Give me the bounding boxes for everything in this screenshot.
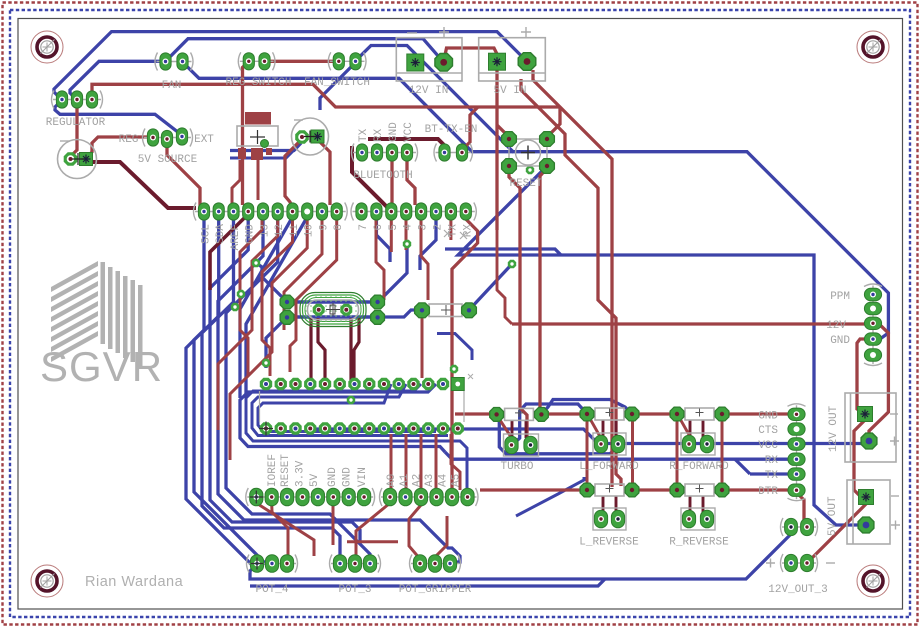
wire (252, 384, 448, 436)
pad BLUETOOTH RX (371, 144, 382, 161)
svg-text:TURBO: TURBO (500, 461, 533, 473)
pad FTDI GND (788, 408, 805, 420)
cross mark (250, 130, 265, 144)
wire (735, 459, 750, 474)
wire (409, 505, 421, 559)
pad U1 top5 (319, 378, 331, 390)
SMD pad (251, 148, 263, 160)
SMD pad (238, 148, 246, 159)
pad REG 2 (161, 130, 172, 147)
header TURBO outline (504, 434, 539, 456)
cross mark (72, 153, 84, 165)
pad REG 1 (147, 129, 158, 146)
pad POT_4 3 (280, 555, 293, 573)
wire (71, 100, 77, 159)
pad BT-TX-EN 2 (456, 144, 467, 161)
svg-text:SCL: SCL (201, 224, 213, 244)
wire (497, 230, 512, 324)
x mark (444, 230, 451, 237)
pad L_REVERSE a (594, 510, 607, 528)
pad L_FORWARD a (594, 435, 607, 453)
wire (513, 404, 588, 445)
wire (376, 219, 390, 262)
pad U1 top2 (275, 378, 287, 390)
wire (869, 323, 888, 441)
svg-text:POT_3: POT_3 (338, 584, 371, 596)
svg-text:R_REVERSE: R_REVERSE (669, 537, 729, 549)
wire (750, 472, 795, 475)
header 12V_OUT_3 (781, 554, 818, 572)
pad U1 top8 (363, 378, 375, 390)
svg-text:A3: A3 (424, 474, 436, 487)
header digital row2 (351, 203, 476, 221)
pad R_REVERSE 2 (715, 483, 729, 497)
wire (854, 420, 866, 497)
pad 5V IN - (489, 53, 506, 70)
wire (810, 497, 866, 560)
pad R_REVERSE 1 (670, 483, 684, 497)
minus mark (826, 562, 835, 564)
svg-text:BT-TX-EN: BT-TX-EN (425, 124, 478, 136)
pad U1 bot11 (407, 422, 419, 434)
pad Q1 g2 (280, 311, 294, 325)
wire (349, 318, 352, 380)
wire (589, 417, 602, 440)
wire (309, 318, 312, 380)
plus mark (521, 27, 531, 37)
pad L_REVERSE 2 (625, 483, 639, 497)
svg-text:5V OUT: 5V OUT (827, 496, 839, 536)
cross mark (458, 484, 471, 497)
pad hole (455, 382, 460, 387)
wire (636, 488, 675, 491)
wire (86, 137, 153, 158)
pad SMD (261, 140, 269, 148)
pad D-7 (356, 203, 367, 220)
wire (462, 107, 478, 150)
wire (421, 318, 424, 378)
pad PWR6 (327, 488, 340, 506)
wire (210, 219, 360, 544)
x mark (460, 232, 467, 239)
svg-text:DTR: DTR (758, 486, 778, 498)
crystal Q1 body (300, 293, 366, 327)
pad Q1 g3 (371, 295, 385, 309)
header REGULATOR (52, 91, 103, 109)
pad L_FORWARD 2 (625, 407, 639, 421)
svg-text:GND: GND (245, 224, 257, 244)
svg-text:REGULATOR: REGULATOR (46, 117, 106, 129)
wire (167, 139, 200, 211)
svg-text:12V OUT: 12V OUT (828, 405, 840, 452)
svg-text:R_FORWARD: R_FORWARD (669, 461, 729, 473)
pad TURBO b (524, 436, 537, 454)
svg-text:L_FORWARD: L_FORWARD (579, 461, 639, 473)
via (347, 396, 355, 404)
wire (407, 152, 415, 205)
svg-text:6: 6 (373, 224, 385, 231)
pad U1 top7 (348, 378, 360, 390)
svg-text:Rian Wardana: Rian Wardana (85, 574, 184, 590)
wire (166, 39, 444, 63)
pad U1 bot12 (422, 422, 434, 434)
pad Q1 a (313, 304, 325, 316)
wire (796, 492, 806, 527)
svg-text:9: 9 (319, 224, 331, 231)
pad R_FORWARD a (682, 435, 695, 453)
pad FTDI TX (788, 468, 805, 480)
svg-text:A5: A5 (451, 474, 463, 487)
pad BLUETOOTH GND (386, 144, 397, 161)
capacitor C1 outline (58, 140, 97, 179)
pad POT_4 1 (250, 555, 263, 573)
via (252, 259, 260, 267)
wire (421, 219, 428, 300)
header R_FORWARD outline (681, 433, 715, 455)
header POT_4 (247, 555, 298, 573)
pad D-12 (272, 203, 283, 220)
pad U1 bot10 (393, 422, 405, 434)
header POT_3 (330, 555, 381, 573)
pad 5V IN + (518, 53, 536, 71)
pad C1 - (64, 152, 78, 166)
header analog (380, 488, 479, 506)
mounting hole H4 (857, 565, 889, 597)
pad PWR4 (296, 488, 309, 506)
wire (320, 66, 352, 110)
pad U1 bot3 (289, 422, 301, 434)
pad PPM (864, 349, 881, 361)
wire (499, 416, 617, 454)
wire (262, 219, 293, 376)
svg-text:4: 4 (403, 224, 415, 231)
pad U1 top1 (260, 378, 272, 390)
wire (420, 434, 423, 490)
wire (545, 412, 582, 415)
wire (246, 384, 467, 488)
wire (310, 429, 862, 444)
wire (250, 579, 605, 586)
wire (86, 162, 196, 208)
svg-text:3.3V: 3.3V (295, 460, 307, 487)
x mark (468, 374, 473, 379)
wire (368, 139, 448, 149)
pad D-3 (416, 203, 427, 220)
header L_REVERSE outline (593, 508, 626, 530)
pad 5V OUT + (858, 517, 874, 533)
header FTDI (788, 404, 806, 501)
header R_REVERSE outline (681, 508, 715, 530)
resistor R1 outline (429, 304, 462, 317)
wire (615, 420, 618, 438)
pad 12V_OUT_3 + (785, 554, 798, 571)
pad A3 (430, 488, 443, 506)
pad POT_GRIPPER 1 (413, 555, 426, 573)
wire (469, 264, 512, 310)
wire (230, 219, 307, 460)
wire (250, 527, 791, 579)
pad POT_3 3 (363, 555, 376, 573)
via (262, 359, 270, 367)
wire (458, 168, 862, 525)
wire (444, 48, 498, 62)
component RESET outline (509, 139, 547, 166)
svg-text:A1: A1 (399, 473, 411, 487)
svg-text:FAN_SWITCH: FAN_SWITCH (304, 77, 370, 89)
wire (689, 496, 692, 513)
pad U1 bot2 (275, 422, 287, 434)
svg-text:RX: RX (373, 128, 385, 142)
wire (420, 219, 436, 270)
pad L_FORWARD 1 (580, 407, 594, 421)
wire (186, 219, 257, 564)
svg-text:REG: REG (119, 134, 139, 146)
svg-text:FAN: FAN (162, 80, 182, 92)
connector 12V OUT outline (845, 393, 896, 462)
wire (727, 412, 789, 415)
pad TURBO 1 (490, 408, 504, 422)
wire (240, 384, 445, 452)
capacitor C2 outline (292, 118, 329, 155)
pad D-10 (302, 203, 313, 220)
wire (272, 503, 288, 560)
wire (317, 139, 330, 205)
pad POT_GRIPPER 2 (428, 555, 441, 573)
header REG_SWITCH (238, 52, 275, 70)
resistor R_FORWARD outline (685, 408, 714, 420)
svg-text:5V: 5V (309, 473, 321, 487)
wire (378, 244, 407, 302)
pad 12V IN + (435, 54, 453, 72)
svg-text:EXT: EXT (194, 134, 214, 146)
wire (547, 107, 560, 137)
pad Q1 g1 (280, 295, 294, 309)
header FAN_SWITCH (328, 52, 366, 70)
wire (405, 434, 408, 490)
minus mark (407, 32, 417, 34)
pad D-AREF (228, 203, 239, 220)
via (508, 260, 516, 268)
pad RESET 3 (502, 159, 517, 174)
pad RESET 4 (540, 159, 555, 174)
pad DIO 2 (801, 518, 814, 535)
wire (354, 318, 359, 380)
svg-text:IOREF: IOREF (267, 454, 279, 487)
pad Q1 g4 (371, 311, 385, 325)
pad PWR3 (281, 488, 294, 506)
pad RESET 1 (502, 132, 517, 147)
wire (541, 400, 632, 415)
header digital row1 (194, 203, 348, 221)
pad BLUETOOTH TX (356, 144, 367, 161)
wire (390, 219, 393, 252)
pad D-GND (243, 203, 254, 220)
pad TURBO a (505, 436, 518, 454)
pad U1 top13 (437, 378, 449, 390)
wire (727, 488, 789, 491)
header BT-TX-EN (434, 144, 473, 162)
wire (509, 168, 527, 440)
wire (287, 300, 378, 303)
wire (551, 152, 888, 339)
wire (70, 61, 166, 100)
cross mark (441, 305, 451, 315)
wire (615, 496, 618, 513)
wire (512, 322, 867, 325)
pad 5V OUT - (859, 490, 874, 505)
svg-text:CTS: CTS (758, 425, 778, 437)
pad PWR1 (250, 488, 263, 506)
pad DIO 1 (785, 518, 798, 535)
svg-text:GND: GND (388, 122, 400, 142)
pad PWR5 (311, 488, 324, 506)
wire (355, 46, 551, 152)
wire (210, 214, 248, 290)
svg-text:GND: GND (342, 467, 354, 487)
plus mark (766, 559, 775, 568)
pad POT_3 2 (348, 555, 361, 573)
wire (347, 540, 398, 543)
svg-text:A4: A4 (438, 473, 450, 487)
mounting hole H2 (857, 31, 889, 63)
svg-text:VIN: VIN (357, 467, 369, 487)
via (403, 240, 411, 248)
wire (497, 125, 509, 137)
svg-text:BLUETOOTH: BLUETOOTH (353, 170, 412, 182)
pad R_FORWARD 1 (670, 407, 684, 421)
wire (256, 263, 287, 302)
wire (240, 219, 262, 376)
header power (246, 488, 375, 506)
pad R_REVERSE a (682, 510, 695, 528)
pad POT_4 2 (265, 555, 278, 573)
wire (55, 100, 182, 135)
svg-text:GND: GND (830, 335, 850, 347)
wire (390, 152, 393, 205)
svg-text:RX: RX (765, 455, 779, 467)
wire (284, 219, 322, 330)
pad REGULATOR 2 (71, 91, 82, 108)
wire (240, 217, 293, 398)
pad POT_3 1 (333, 555, 346, 573)
wire (265, 60, 339, 63)
wire (451, 434, 460, 490)
pad BT-TX-EN 1 (439, 144, 450, 161)
pad D-SDA (213, 203, 224, 220)
pad Q1 b (340, 304, 352, 316)
svg-text:12V: 12V (826, 320, 846, 332)
wire (449, 219, 452, 240)
svg-text:TX: TX (765, 470, 779, 482)
wire (452, 219, 478, 488)
wire (702, 496, 705, 513)
pad U1 top9 (378, 378, 390, 390)
IC U1 outline (260, 391, 465, 422)
minus mark (890, 413, 898, 415)
pad U1 bot1 (260, 422, 272, 434)
mounting hole H3 (31, 565, 63, 597)
wire (230, 143, 301, 151)
header L_FORWARD outline (593, 433, 626, 455)
wire (256, 503, 314, 556)
wire (689, 420, 692, 438)
minus mark (60, 140, 70, 142)
pad R1 2 (462, 303, 477, 318)
pad D-13 (257, 203, 268, 220)
svg-text:5: 5 (388, 224, 400, 231)
pad PPM (864, 302, 881, 314)
resistor R_REVERSE outline (685, 484, 714, 496)
wire (243, 61, 249, 205)
connector 5V OUT outline (847, 480, 890, 544)
svg-text:RESET: RESET (509, 178, 542, 190)
pad U1 top10 (393, 378, 405, 390)
pad 12V IN - (407, 54, 424, 71)
wire (218, 219, 460, 562)
pad U1 bot5 (319, 422, 331, 434)
wire (586, 418, 589, 486)
svg-text:8: 8 (333, 224, 345, 231)
svg-text:11: 11 (289, 224, 301, 238)
pad U1 bot4 (304, 422, 316, 434)
wire (405, 219, 408, 250)
pad FAN_SWITCH 2 (350, 53, 361, 70)
svg-text:3: 3 (418, 224, 430, 231)
svg-text:REG_SWITCH: REG_SWITCH (225, 77, 291, 89)
plus mark (890, 437, 899, 446)
wire (376, 219, 384, 300)
minus mark (294, 119, 303, 121)
svg-text:12V_OUT_3: 12V_OUT_3 (768, 584, 827, 596)
mounting hole H1 (31, 31, 63, 63)
resistor TURBO outline (505, 408, 534, 420)
via (450, 365, 458, 373)
pad U1 top12 (422, 378, 434, 390)
wire (540, 168, 547, 410)
wire (230, 151, 293, 158)
pad FTDI VCC (788, 438, 805, 450)
pad PPM (864, 333, 881, 345)
wire (445, 249, 561, 255)
plus mark (891, 521, 900, 530)
wire (285, 139, 302, 207)
wire (92, 84, 560, 107)
pad FAN 1 (160, 53, 171, 70)
wire (356, 503, 390, 558)
pad U1 bot14 (452, 422, 464, 434)
pad FTDI CTS (788, 423, 805, 435)
svg-text:RESET: RESET (280, 454, 292, 487)
wire (516, 477, 584, 516)
pad D-5 (386, 203, 397, 220)
wire (183, 62, 514, 152)
logo SGVR mark (51, 261, 143, 367)
component outline (237, 126, 278, 146)
svg-text:5V SOURCE: 5V SOURCE (138, 154, 198, 166)
header REG-EXT (143, 129, 193, 147)
wire (318, 318, 325, 380)
pad U1 bot13 (437, 422, 449, 434)
pad PWR8 (358, 488, 371, 506)
wire (257, 160, 260, 200)
cross mark (259, 422, 273, 436)
wire (445, 452, 789, 459)
pad R_REVERSE b (700, 510, 713, 528)
wire (679, 417, 692, 440)
svg-text:TX: TX (358, 128, 370, 142)
wire (525, 420, 528, 438)
pad FAN_SWITCH 1 (333, 53, 344, 70)
